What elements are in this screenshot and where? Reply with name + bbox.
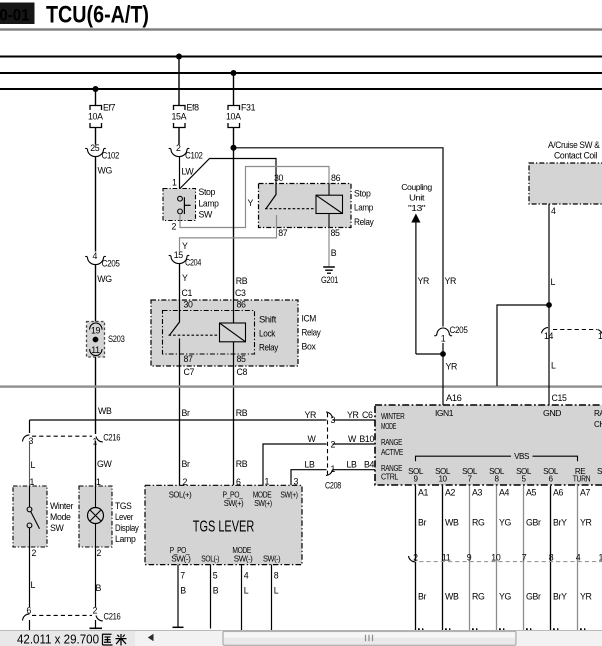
clipped glyph stubs at bottom	[418, 628, 585, 630]
svg-text:A4: A4	[499, 488, 510, 498]
svg-text:C3: C3	[235, 288, 246, 298]
wire WB S203 down to C216	[95, 357, 97, 434]
svg-text:85: 85	[330, 228, 340, 238]
node L branch	[546, 302, 552, 308]
svg-text:GBr: GBr	[526, 517, 541, 527]
wire L pin4 down	[548, 204, 550, 405]
bus line 1	[0, 56, 602, 58]
svg-text:RG: RG	[472, 591, 485, 601]
svg-text:BrY: BrY	[553, 517, 567, 527]
node bus2/F31	[231, 70, 237, 76]
svg-text:A6: A6	[553, 488, 564, 498]
svg-text:Box: Box	[302, 342, 317, 352]
wire bus3 to fuse Ef7	[95, 89, 97, 106]
wire Br ICM C7 to TGS	[179, 366, 181, 485]
svg-text:A7: A7	[580, 488, 591, 498]
svg-text:C102: C102	[185, 151, 203, 161]
svg-text:86: 86	[237, 300, 247, 310]
TGS bottom wires	[177, 565, 179, 627]
svg-text:11: 11	[91, 345, 100, 355]
svg-text:C7: C7	[184, 367, 195, 377]
svg-text:WB: WB	[98, 406, 112, 416]
svg-text:2: 2	[171, 222, 176, 232]
svg-text:3: 3	[294, 476, 299, 486]
svg-text:1: 1	[172, 178, 177, 188]
svg-text:Mode: Mode	[50, 512, 71, 522]
svg-text:A3: A3	[472, 488, 483, 498]
svg-text:L: L	[244, 586, 249, 596]
svg-text:6: 6	[236, 477, 241, 487]
wire F31 down to ICM C3	[233, 128, 235, 301]
svg-text:10: 10	[438, 475, 447, 484]
svg-text:Lock: Lock	[259, 328, 276, 338]
svg-text:C8: C8	[237, 367, 248, 377]
connector 4 C205	[85, 251, 120, 268]
svg-text:YR: YR	[580, 517, 592, 527]
svg-text:10: 10	[491, 552, 501, 562]
svg-text:2: 2	[97, 548, 102, 558]
svg-text:1: 1	[331, 464, 336, 474]
svg-text:9: 9	[467, 552, 472, 562]
svg-text:RG: RG	[472, 517, 485, 527]
svg-text:86: 86	[331, 173, 341, 183]
svg-text:GBr: GBr	[526, 591, 541, 601]
bus line 2	[0, 72, 602, 74]
svg-text:1: 1	[598, 331, 602, 341]
svg-text:TCU(6-A/T): TCU(6-A/T)	[46, 2, 149, 29]
connector row under TCU	[409, 552, 602, 562]
svg-text:F31: F31	[241, 103, 256, 113]
svg-text:TURN: TURN	[573, 475, 591, 484]
CJK 厘米 approx	[102, 634, 127, 646]
svg-text:1: 1	[265, 476, 270, 486]
svg-text:2: 2	[32, 548, 37, 558]
wire F31 junction row	[233, 73, 235, 106]
wire branch to separator	[497, 305, 549, 386]
svg-text:C216: C216	[104, 612, 121, 622]
svg-text:S203: S203	[108, 334, 125, 344]
svg-text:YG: YG	[499, 517, 512, 527]
VBS bracket	[416, 456, 578, 461]
svg-text:10A: 10A	[88, 112, 103, 122]
connector 25 C102	[85, 143, 119, 161]
svg-text:15A: 15A	[171, 112, 186, 122]
wire YR drop to C216 pin3	[29, 420, 31, 433]
svg-text:25: 25	[90, 143, 100, 153]
TCU box	[375, 405, 602, 485]
svg-text:30-01: 30-01	[0, 7, 30, 25]
C208 connector column	[325, 412, 341, 491]
svg-text:A/Cruise SW &: A/Cruise SW &	[548, 140, 600, 150]
title block 0-01	[0, 3, 35, 25]
svg-text:TGS: TGS	[115, 501, 132, 511]
wire stop SW pin1 diagonal to relay 30	[180, 159, 276, 189]
svg-text:Contact Coil: Contact Coil	[554, 151, 597, 161]
svg-text:2: 2	[183, 477, 188, 487]
svg-text:Unit: Unit	[409, 194, 425, 203]
node bus3/Ef7	[93, 86, 99, 92]
wire WG C102 to C205	[95, 157, 97, 252]
wire fuse Ef8 to C102	[178, 128, 180, 145]
svg-text:85: 85	[237, 354, 247, 364]
svg-text:Y: Y	[182, 241, 188, 251]
svg-text:RA: RA	[594, 409, 602, 418]
svg-text:CH: CH	[594, 420, 602, 429]
svg-text:B: B	[96, 583, 102, 593]
wire fuse Ef7 to C102	[95, 128, 97, 145]
svg-text:CTRL: CTRL	[381, 472, 399, 481]
svg-text:14: 14	[544, 331, 554, 341]
svg-text:LB: LB	[305, 460, 316, 470]
svg-text:RANGE: RANGE	[381, 438, 403, 447]
svg-text:SW: SW	[199, 210, 214, 220]
svg-text:ACTIVE: ACTIVE	[381, 448, 404, 457]
svg-text:YR: YR	[305, 410, 317, 420]
svg-text:A5: A5	[526, 488, 537, 498]
svg-text:8: 8	[274, 571, 279, 581]
fuse F31 10A	[226, 103, 256, 128]
svg-text:WINTER: WINTER	[381, 412, 405, 421]
svg-text:B10: B10	[359, 434, 374, 444]
svg-text:GND: GND	[543, 409, 562, 418]
svg-text:Br: Br	[418, 591, 427, 601]
wire relay 87 to C204	[180, 228, 277, 252]
svg-text:C208: C208	[325, 481, 341, 491]
svg-text:RB: RB	[236, 459, 248, 469]
wire Y C204 to ICM C1	[179, 264, 181, 300]
svg-text:C204: C204	[185, 258, 201, 268]
svg-text:RB: RB	[236, 276, 248, 286]
svg-text:42.011 x 29.700: 42.011 x 29.700	[17, 632, 99, 646]
A/Cruise SW box	[529, 140, 602, 204]
wire LW C102 to stop lamp SW pin1	[179, 157, 181, 197]
svg-text:YR: YR	[347, 410, 359, 420]
svg-text:B: B	[331, 248, 337, 258]
svg-text:2: 2	[176, 143, 181, 153]
svg-text:SW(-): SW(-)	[263, 555, 281, 564]
svg-text:Br: Br	[182, 459, 191, 469]
svg-text:YR: YR	[418, 276, 430, 286]
connector C216 upper	[23, 433, 121, 447]
svg-text:WB: WB	[445, 591, 459, 601]
svg-text:B: B	[180, 586, 186, 596]
svg-text:2: 2	[93, 606, 98, 616]
gray page separator	[0, 385, 602, 387]
title underline	[0, 28, 602, 30]
svg-text:SOL(+): SOL(+)	[169, 490, 192, 499]
ground G201	[321, 267, 338, 285]
svg-text:A16: A16	[446, 393, 462, 403]
svg-text:87: 87	[184, 354, 194, 364]
splice S203	[87, 322, 125, 358]
svg-text:10A: 10A	[226, 112, 241, 122]
svg-text:Br: Br	[418, 517, 427, 527]
svg-text:87: 87	[278, 228, 288, 238]
svg-text:C1: C1	[182, 288, 193, 298]
svg-text:SW(-): SW(-)	[234, 555, 253, 564]
svg-text:W: W	[308, 434, 317, 444]
svg-text:C6: C6	[362, 410, 373, 420]
ICM relay box	[151, 300, 298, 366]
svg-text:4: 4	[244, 571, 249, 581]
svg-text:L: L	[551, 360, 556, 370]
svg-text:G201: G201	[321, 275, 338, 285]
svg-text:2: 2	[413, 552, 418, 562]
node bus1/Ef8	[176, 54, 182, 60]
bus line 3	[0, 88, 602, 90]
svg-text:Lever: Lever	[115, 512, 133, 522]
svg-text:WB: WB	[445, 517, 459, 527]
node YR junction	[440, 351, 446, 357]
svg-text:YG: YG	[499, 591, 512, 601]
svg-text:15: 15	[174, 250, 184, 260]
svg-text:6: 6	[27, 606, 32, 616]
svg-text:LW: LW	[182, 166, 195, 176]
coupling unit arrow	[401, 183, 432, 354]
wire to C205/A16 column	[234, 148, 444, 327]
svg-text:Stop: Stop	[199, 187, 216, 197]
svg-text:S: S	[597, 467, 602, 476]
svg-text:19: 19	[91, 326, 101, 336]
connector 14 right	[542, 328, 602, 341]
node F31 branch	[231, 145, 237, 151]
fuse Ef8 15A	[171, 103, 199, 128]
svg-text:TGS LEVER: TGS LEVER	[193, 518, 255, 535]
svg-text:5: 5	[213, 571, 218, 581]
svg-text:SOL(-): SOL(-)	[201, 555, 219, 564]
svg-text:Display: Display	[115, 523, 139, 533]
winter mode switch	[13, 486, 73, 547]
wire Y stop SW pin2 to relay 86	[180, 167, 329, 228]
wire YR right of C208	[333, 419, 376, 421]
wire YR horizontal row	[30, 419, 327, 421]
svg-text:C102: C102	[102, 151, 120, 161]
connector 2 C102	[169, 143, 203, 161]
wire bus1 to fuse Ef8	[178, 57, 180, 106]
wire GW C216 to lamp	[95, 441, 97, 486]
svg-text:B4: B4	[364, 460, 375, 470]
svg-text:7: 7	[180, 571, 185, 581]
svg-text:Lamp: Lamp	[199, 199, 219, 209]
svg-text:Ef8: Ef8	[187, 103, 200, 113]
svg-text:C216: C216	[103, 433, 120, 443]
svg-text:A2: A2	[445, 488, 456, 498]
svg-text:Relay: Relay	[259, 343, 279, 353]
svg-text:L: L	[31, 460, 36, 470]
svg-text:30: 30	[274, 173, 284, 183]
stop lamp relay	[259, 173, 375, 238]
scrollbar thumb	[223, 631, 516, 645]
svg-text:C15: C15	[552, 393, 567, 403]
stop lamp SW	[163, 178, 219, 232]
svg-text:Shift: Shift	[259, 314, 277, 324]
svg-text:YR: YR	[446, 361, 458, 371]
svg-text:Y: Y	[248, 198, 254, 208]
svg-text:C205: C205	[102, 259, 120, 269]
svg-text:Ef7: Ef7	[103, 103, 116, 113]
svg-text:SW(-): SW(-)	[171, 555, 191, 564]
svg-text:4: 4	[93, 251, 98, 261]
svg-text:MODE: MODE	[381, 422, 397, 431]
svg-text:1: 1	[599, 552, 602, 562]
svg-text:Coupling: Coupling	[401, 183, 432, 192]
svg-text:ICM: ICM	[302, 313, 317, 323]
svg-text:C205: C205	[450, 325, 468, 335]
svg-text:Stop: Stop	[354, 188, 371, 198]
svg-text:Relay: Relay	[302, 328, 322, 338]
svg-text:30: 30	[184, 300, 194, 310]
svg-text:RB: RB	[236, 408, 248, 418]
svg-text:L: L	[551, 277, 556, 287]
wire L C216 to Winter SW	[29, 441, 31, 486]
svg-text:IGN1: IGN1	[435, 409, 454, 418]
connector C216 lower	[23, 606, 121, 622]
wire W row	[263, 444, 327, 485]
svg-text:Winter: Winter	[50, 501, 73, 511]
svg-text:BrY: BrY	[553, 591, 567, 601]
TCU bottom wires A1-A7	[416, 486, 578, 631]
svg-text:1: 1	[441, 334, 446, 344]
svg-text:4: 4	[551, 206, 556, 216]
svg-text:"13": "13"	[408, 204, 426, 213]
svg-text:SW: SW	[50, 523, 65, 533]
connector 15 C204	[169, 250, 202, 267]
svg-text:W: W	[348, 434, 357, 444]
svg-text:LB: LB	[347, 460, 358, 470]
TGS lever display lamp	[79, 486, 139, 547]
connector 1 C205 (mid right)	[434, 325, 468, 344]
wire B relay 85 to ground	[328, 228, 330, 267]
svg-text:VBS: VBS	[514, 452, 530, 461]
svg-text:WG: WG	[97, 274, 112, 284]
svg-text:11: 11	[442, 552, 451, 562]
svg-text:Relay: Relay	[354, 217, 374, 227]
svg-text:SW(+): SW(+)	[254, 499, 272, 508]
svg-text:A1: A1	[418, 488, 429, 498]
wire stubs below C216	[29, 620, 31, 630]
scrollbar left arrow	[148, 634, 154, 641]
svg-text:Lamp: Lamp	[115, 534, 136, 544]
svg-text:8: 8	[549, 552, 554, 562]
wire LB row	[291, 470, 327, 485]
svg-text:GW: GW	[97, 459, 112, 469]
svg-text:YR: YR	[580, 591, 592, 601]
svg-text:7: 7	[522, 552, 527, 562]
svg-text:Lamp: Lamp	[354, 203, 373, 213]
fuse Ef7 10A	[88, 103, 116, 128]
svg-text:SW(+): SW(+)	[280, 490, 298, 499]
svg-text:YR: YR	[445, 276, 457, 286]
svg-text:L: L	[31, 580, 36, 590]
svg-text:4: 4	[576, 552, 581, 562]
svg-text:Y: Y	[182, 273, 188, 283]
TGS LEVER box	[145, 476, 302, 564]
svg-text:Br: Br	[182, 408, 191, 418]
status bar	[0, 631, 602, 646]
wire WG C205 to S203	[95, 265, 97, 322]
svg-text:WG: WG	[98, 165, 113, 175]
wire RB ICM C8 to TGS	[233, 366, 235, 485]
svg-text:B: B	[213, 586, 219, 596]
svg-text:SW(+): SW(+)	[224, 499, 244, 508]
svg-text:L: L	[274, 586, 279, 596]
